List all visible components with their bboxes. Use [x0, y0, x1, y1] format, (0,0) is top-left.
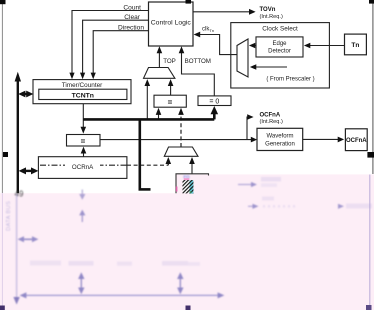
arrowhead Tn into edge detector	[304, 43, 310, 49]
pink blurred lower region right	[176, 174, 374, 310]
faint right arrow y184	[238, 182, 257, 187]
arrowhead dashed into comparator A	[178, 108, 184, 115]
svg-text:( From Prescaler ): ( From Prescaler )	[266, 77, 314, 83]
wire TCNTn to comparator B	[82, 104, 84, 127]
box TCNTn	[39, 89, 127, 99]
svg-text:Direction: Direction	[118, 25, 144, 32]
svg-text:Waveform: Waveform	[266, 133, 293, 139]
faint dotted text row y206	[263, 205, 297, 208]
faint double horizontal arrow left	[18, 236, 39, 242]
wire Tn to edge detector	[309, 45, 345, 47]
box Waveform Generation	[257, 128, 303, 150]
lower mux trapezoid	[164, 147, 198, 156]
wire from prescaler to clock mux	[255, 66, 288, 68]
svg-text:49: 49	[15, 190, 24, 199]
selection handle bottom-left	[0, 306, 5, 310]
svg-text:Generation: Generation	[265, 141, 295, 147]
arrowhead FOCn into lower mux	[189, 157, 195, 164]
wire dashed lower mux output to comparator A	[180, 115, 182, 148]
box Timer/Counter	[33, 80, 131, 104]
data bus to Timer/Counter double arrow	[24, 93, 29, 95]
wire bus to TOP mux left input	[146, 86, 148, 119]
thick TCNTn value bus horizontal	[83, 118, 214, 121]
arrowhead thick into =0 box	[211, 106, 219, 114]
wire TOP (mux to control logic)	[158, 53, 160, 68]
box OCFnA pin	[345, 129, 367, 151]
selection handle mid-left	[3, 152, 8, 157]
svg-text:Timer/Counter: Timer/Counter	[62, 82, 103, 89]
FOCn pink smudge top	[184, 178, 190, 180]
wire waveform generation to OCFnA pin	[303, 138, 340, 140]
faint vertical double arrow x81	[78, 272, 84, 294]
faint data bus arrowhead	[13, 297, 19, 305]
arrowhead dashed OCRnA into lower mux	[166, 157, 172, 164]
wire dash-dot inside OCRnA box	[40, 164, 127, 166]
data bus vertical line	[17, 80, 19, 193]
wire bus to comparator A left input	[158, 115, 160, 119]
thick wire bus turn up into =0	[213, 113, 216, 120]
arrowhead TOP into control logic	[157, 46, 163, 53]
FOCn magenta streak	[176, 187, 178, 192]
box Control Logic	[149, 2, 194, 46]
faint long double arrow y295	[20, 292, 225, 298]
wire dashed OCRnA to lower mux	[127, 164, 168, 166]
selection handle bottom-right	[366, 305, 372, 310]
thick L wire down from bus	[139, 119, 142, 189]
arrowhead Clear into Timer/Counter	[80, 73, 85, 80]
arrowhead OCFnA interrupt	[247, 114, 253, 120]
faint text block y180	[261, 177, 281, 182]
arrowhead OCRnA into comparator B bottom	[81, 147, 87, 154]
svg-text:OCRnA: OCRnA	[72, 164, 94, 171]
wire OCRnA to comparator B	[83, 153, 85, 157]
clock select mux	[237, 39, 248, 77]
svg-text:Tn: Tn	[351, 42, 359, 49]
svg-text:OCFnA: OCFnA	[346, 138, 367, 144]
svg-text:(Int.Req.): (Int.Req.)	[260, 119, 283, 125]
arrowhead edge detector into clock mux	[249, 43, 255, 49]
svg-text:=: =	[168, 98, 173, 107]
faint data bus line	[16, 194, 18, 299]
arrowhead into TOP mux left	[145, 79, 151, 86]
svg-text:clkTn: clkTn	[202, 27, 214, 33]
svg-text:Control Logic: Control Logic	[151, 20, 192, 27]
FOCn hatch overlay	[183, 180, 194, 193]
faint up arrow	[79, 210, 85, 222]
arrowhead bus into comparator A	[156, 108, 162, 115]
wire dashed stub below lower-mux left arrow	[167, 163, 169, 165]
selection border right faint lower	[369, 175, 371, 306]
arrowhead TCNTn into comparator B	[81, 127, 87, 134]
faint text row y263	[30, 261, 61, 266]
svg-text:TCNTn: TCNTn	[72, 93, 94, 100]
selection handle mid-right	[367, 152, 374, 158]
wire Clear	[83, 20, 149, 74]
faint right arrow y206 far right	[338, 204, 372, 209]
faint vertical double arrow x180	[177, 272, 183, 294]
arrowhead comparator B out into waveform generation	[251, 137, 257, 143]
arrowhead Count into Timer/Counter	[69, 73, 74, 80]
wire comparator B output to waveform generation	[100, 139, 253, 141]
svg-text:Edge: Edge	[272, 41, 287, 47]
faint right arrow y206	[248, 204, 259, 209]
green dot	[190, 191, 192, 193]
selection handle top-center	[186, 0, 192, 4]
wire comparator A top to TOP mux right input	[170, 86, 172, 96]
wire TOVn	[193, 11, 251, 13]
data bus top arrowhead	[15, 72, 21, 82]
svg-text:Clock Select: Clock Select	[262, 26, 298, 33]
arrowhead clk_Tn into control logic	[194, 32, 201, 38]
pink blurred lower region left	[0, 193, 176, 310]
box comparator =0	[198, 96, 231, 106]
box comparator B	[67, 135, 101, 147]
svg-text:Detector: Detector	[268, 49, 291, 55]
arrowhead TOVn	[249, 9, 256, 15]
svg-text:OCFnA: OCFnA	[260, 113, 281, 119]
selection handle top-right	[369, 0, 374, 4]
svg-text:TOVn: TOVn	[260, 7, 276, 13]
box OCRnA	[38, 157, 127, 179]
box Clock Select	[231, 23, 330, 88]
svg-text:BOTTOM: BOTTOM	[185, 58, 211, 65]
arrowhead BOTTOM into control logic	[179, 46, 185, 53]
faint marks y198	[262, 197, 274, 201]
wire clk_Tn	[199, 35, 237, 55]
arrowhead into OCFnA pin box	[338, 137, 344, 143]
data bus to OCRnA double arrow	[24, 170, 33, 172]
wire OCFnA interrupt branch	[247, 117, 249, 140]
FOCn box outline	[176, 174, 209, 194]
svg-text:TOP: TOP	[163, 58, 176, 65]
box Tn	[345, 34, 367, 55]
selection border right	[372, 0, 374, 174]
thick L wire bottom horizontal	[139, 188, 151, 191]
arrowhead into TOP mux right	[168, 79, 174, 86]
svg-text:DATA BUS: DATA BUS	[6, 201, 12, 231]
svg-text:Count: Count	[123, 4, 141, 11]
FOCn hatched block base	[183, 180, 194, 193]
wire Direction	[93, 31, 148, 74]
selection handle bottom-center	[186, 306, 191, 310]
wire Count	[72, 11, 149, 75]
FOCn cyan streak	[190, 180, 194, 193]
arrowhead Direction into Timer/Counter	[91, 73, 96, 80]
TOP mux trapezoid	[144, 68, 175, 79]
wire edge detector to clock mux	[254, 45, 257, 47]
wire lower mux right input from FOCn box	[191, 164, 193, 174]
selection border left faint lower	[1, 193, 3, 306]
svg-text:= 0: = 0	[209, 99, 219, 106]
selection border left	[1, 0, 3, 193]
svg-text:Clear: Clear	[124, 14, 141, 21]
faint down arrow	[79, 190, 85, 200]
faint blurred lower diagram	[6, 177, 372, 305]
wire BOTTOM (=0 to control logic)	[182, 53, 215, 96]
selection handle top-left	[0, 0, 6, 4]
svg-text:=: =	[81, 137, 86, 146]
arrowhead prescaler into clock mux	[250, 64, 256, 70]
box comparator A	[154, 95, 186, 107]
svg-text:(Int.Req.): (Int.Req.)	[260, 14, 283, 20]
box Edge Detector	[256, 37, 303, 57]
